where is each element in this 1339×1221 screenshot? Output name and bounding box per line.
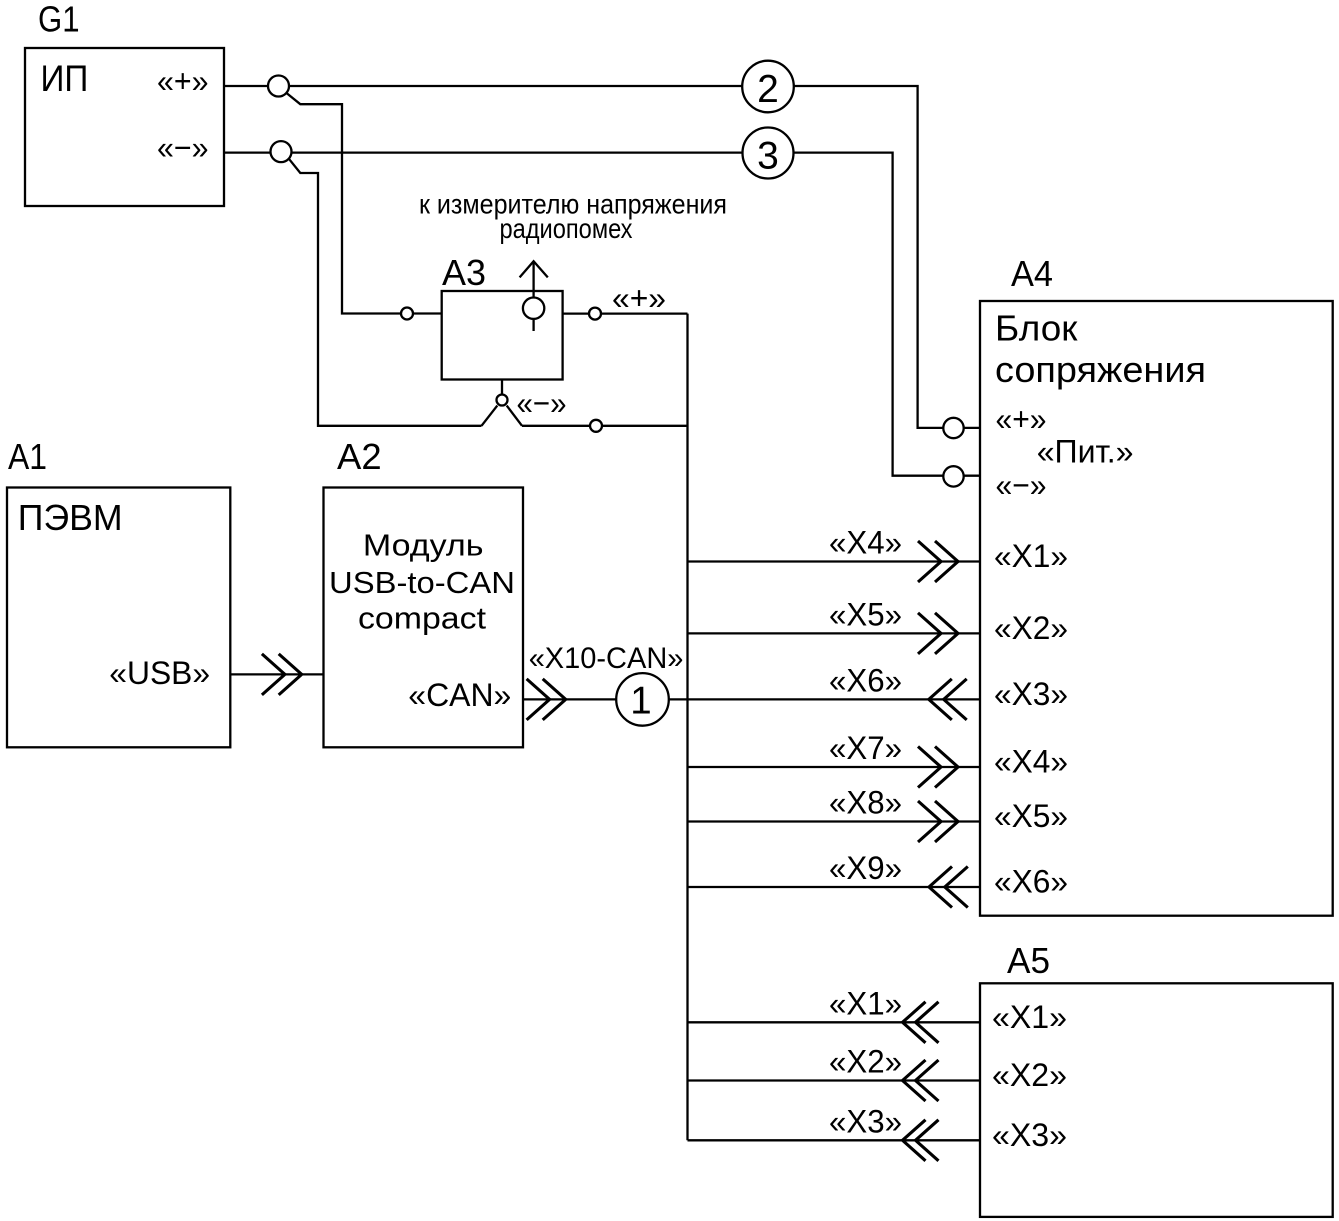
wire X4 line (688, 560, 981, 562)
wire G1 minus to corner down to A4 minus (224, 153, 980, 476)
node circle 1 (616, 673, 669, 726)
svg-text:«X3»: «X3» (829, 1103, 902, 1139)
svg-text:3: 3 (757, 135, 779, 178)
wire USB A1 to A2 (230, 673, 323, 675)
terminal circle A4 minus (943, 466, 963, 486)
chevron X6 left (929, 679, 952, 720)
wire X9 line (688, 886, 981, 888)
svg-text:«−»: «−» (157, 130, 209, 166)
wire trunk vertical (686, 314, 688, 1141)
chevron X8 right (918, 801, 941, 842)
node circle 3 (743, 128, 794, 179)
wire minus to trunk (522, 425, 688, 427)
svg-text:«X1»: «X1» (829, 985, 902, 1021)
chevron CAN (527, 679, 550, 720)
wire A5 X1 line (688, 1021, 981, 1023)
svg-text:«X9»: «X9» (829, 850, 902, 886)
svg-text:Блок: Блок (995, 308, 1078, 349)
terminal circle A3 left (401, 308, 413, 320)
wire A5 X2 line (688, 1079, 981, 1081)
wire CAN A2 to trunk to A4 X3 (523, 698, 980, 700)
svg-text:А4: А4 (1011, 253, 1053, 294)
chevron X7 right (918, 747, 941, 788)
svg-text:«USB»: «USB» (109, 655, 210, 691)
svg-text:G1: G1 (38, 0, 80, 40)
wire X5 line (688, 632, 981, 634)
terminal circle A3 right (589, 308, 601, 320)
terminal circle G1 plus (268, 76, 289, 97)
svg-text:«X2»: «X2» (994, 610, 1068, 646)
terminal circle A3 bottom (497, 395, 508, 406)
svg-text:«+»: «+» (612, 280, 666, 316)
wire minus switch left leg (482, 406, 498, 426)
box A2 (324, 488, 524, 748)
svg-text:А3: А3 (442, 252, 486, 293)
box A5 (980, 983, 1333, 1217)
svg-text:«X2»: «X2» (829, 1044, 902, 1080)
svg-text:2: 2 (757, 68, 779, 111)
svg-text:«X10-CAN»: «X10-CAN» (529, 642, 684, 675)
chevron X5 right (918, 613, 941, 654)
svg-text:USB-to-CAN: USB-to-CAN (329, 565, 515, 600)
svg-text:«X2»: «X2» (992, 1057, 1067, 1093)
svg-text:compact: compact (358, 601, 486, 636)
wire X7 line (688, 766, 981, 768)
svg-text:ПЭВМ: ПЭВМ (18, 497, 123, 538)
A3 measurement arrow (532, 263, 534, 331)
box A4 (980, 301, 1333, 916)
svg-text:«X3»: «X3» (992, 1117, 1067, 1153)
svg-text:ИП: ИП (41, 58, 89, 99)
svg-text:«−»: «−» (996, 467, 1047, 503)
svg-text:«X3»: «X3» (994, 676, 1068, 712)
svg-text:«X5»: «X5» (829, 596, 902, 632)
svg-text:1: 1 (630, 680, 651, 723)
box G1 (25, 48, 224, 206)
svg-text:«X6»: «X6» (829, 662, 902, 698)
chevron X4 right (918, 541, 941, 582)
chevron A5 X3 left (903, 1120, 926, 1161)
svg-text:«+»: «+» (157, 63, 209, 99)
svg-text:«X8»: «X8» (829, 785, 902, 821)
wire minus switch right leg (507, 406, 522, 426)
svg-text:радиопомех: радиопомех (500, 213, 633, 244)
node circle 2 (742, 61, 794, 113)
wire switch blade plus diagonal to A3 input (286, 93, 442, 314)
wire G1 plus to corner down to A4 plus (224, 86, 980, 428)
svg-text:А5: А5 (1007, 940, 1050, 981)
svg-text:«−»: «−» (517, 385, 567, 421)
wire A3 bottom stub (501, 380, 503, 395)
svg-text:«X5»: «X5» (994, 798, 1068, 834)
chevron USB (262, 654, 285, 695)
svg-text:«X4»: «X4» (829, 525, 902, 561)
terminal circle G1 minus (271, 141, 292, 162)
svg-text:«CAN»: «CAN» (408, 677, 511, 713)
wire X8 line (688, 820, 981, 822)
wire switch blade minus diagonal down (289, 158, 482, 426)
svg-text:А1: А1 (8, 436, 47, 477)
svg-text:сопряжения: сопряжения (995, 349, 1206, 390)
svg-text:Модуль: Модуль (363, 528, 484, 563)
box A3 (442, 291, 563, 380)
wire A3 plus output to trunk (563, 312, 688, 314)
svg-text:А2: А2 (337, 436, 382, 477)
box A1 (7, 488, 230, 748)
svg-text:«X1»: «X1» (992, 999, 1067, 1035)
svg-text:«X6»: «X6» (994, 864, 1068, 900)
svg-text:«Пит.»: «Пит.» (1037, 433, 1134, 469)
chevron A5 X2 left (903, 1060, 926, 1101)
terminal circle A4 plus (943, 418, 963, 438)
A3 meter circle (523, 298, 544, 319)
svg-text:«X7»: «X7» (829, 730, 902, 766)
svg-text:«+»: «+» (996, 401, 1047, 437)
chevron X9 left (929, 867, 952, 908)
wire A5 X3 line (688, 1139, 981, 1141)
svg-text:«X4»: «X4» (994, 744, 1068, 780)
terminal circle minus wire (590, 420, 602, 432)
chevron A5 X1 left (903, 1002, 926, 1043)
svg-text:«X1»: «X1» (994, 538, 1068, 574)
